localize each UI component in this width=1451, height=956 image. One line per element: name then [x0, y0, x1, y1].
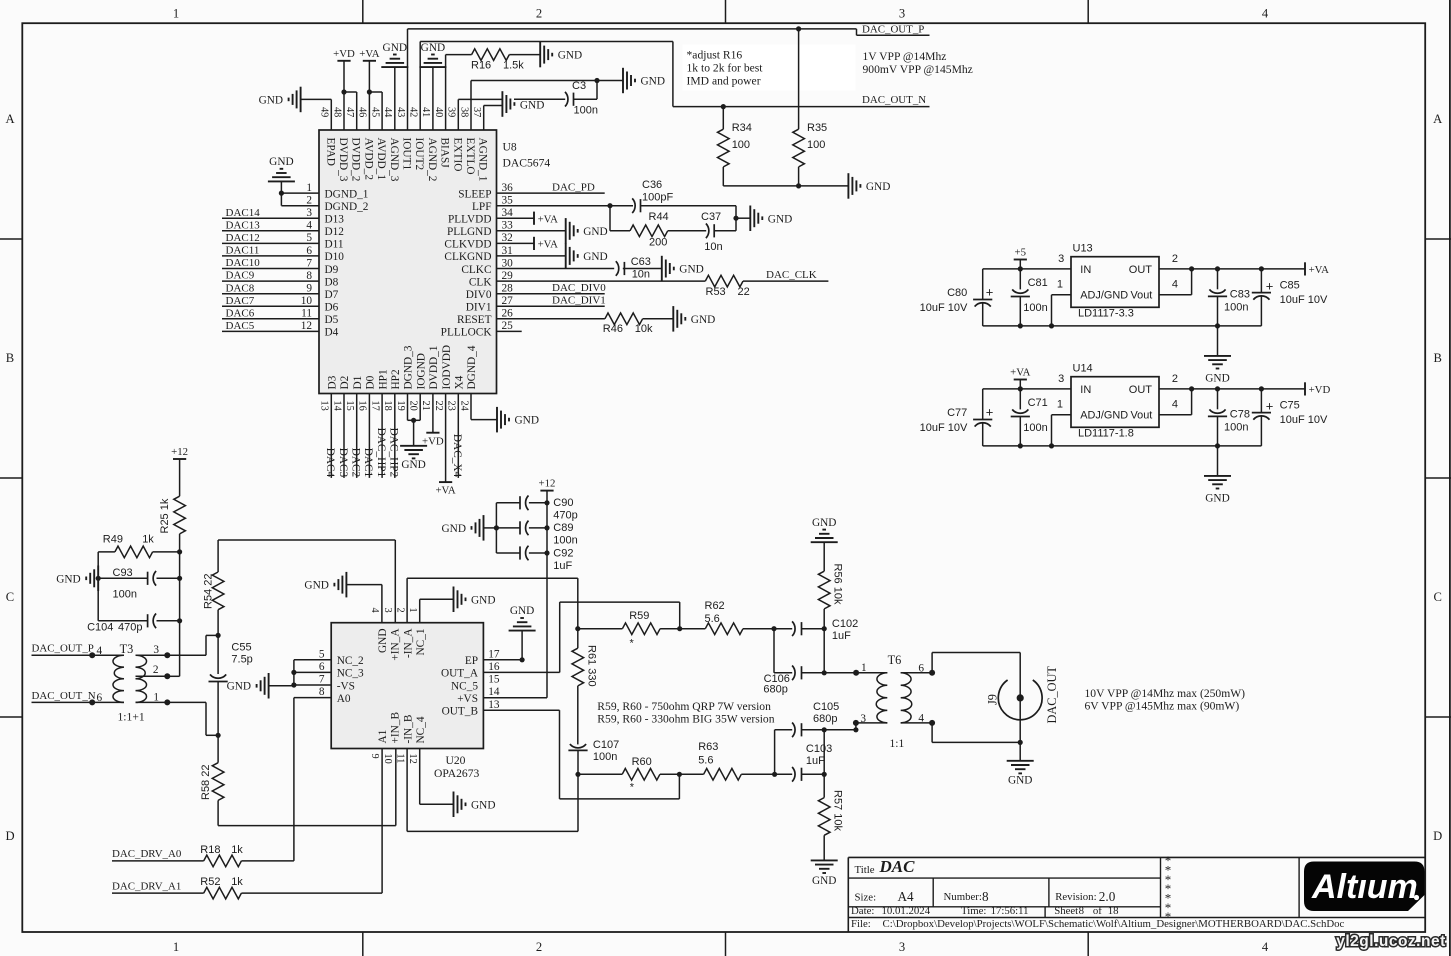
wire R46 to GND	[643, 318, 674, 320]
svg-text:of: of	[1093, 905, 1102, 917]
svg-text:100n: 100n	[113, 589, 137, 601]
junction c4 top	[1259, 266, 1264, 271]
wire DAC_PD from pin36	[497, 182, 605, 194]
svg-text:GND: GND	[421, 42, 445, 54]
svg-text:42: 42	[408, 107, 419, 117]
U20 top pin names and numbers	[369, 608, 427, 661]
capacitor C105 680p	[775, 701, 840, 774]
svg-text:R63: R63	[698, 741, 718, 753]
GND left of pin49	[259, 87, 301, 113]
svg-text:GND: GND	[520, 100, 544, 112]
capacitor C78 100n	[1208, 389, 1250, 446]
junction R34 top	[721, 104, 726, 109]
svg-text:4: 4	[306, 220, 312, 232]
svg-text:NC_5: NC_5	[451, 680, 478, 692]
svg-text:1k: 1k	[231, 844, 243, 856]
T6 pin6 terminal	[918, 662, 935, 675]
resistor R18 1k	[200, 844, 243, 867]
svg-text:+VA: +VA	[1309, 264, 1329, 276]
transformer T6	[856, 653, 932, 750]
svg-text:C93: C93	[113, 567, 133, 579]
ground rail U14	[983, 445, 1262, 447]
svg-text:R44: R44	[649, 211, 669, 223]
junction c3 top	[1215, 386, 1220, 391]
junction c3 top	[1215, 266, 1220, 271]
net label DAC11 wire U8 pin 6	[222, 245, 319, 257]
svg-text:16: 16	[488, 661, 500, 673]
svg-text:15: 15	[488, 674, 500, 686]
svg-text:C104: C104	[87, 622, 113, 634]
capacitor C90 470p	[496, 496, 577, 522]
svg-text:DAC4: DAC4	[324, 448, 336, 478]
junction GND tap	[733, 216, 738, 221]
wire +IN_B to R58	[218, 749, 396, 826]
svg-text:2: 2	[536, 7, 542, 21]
wire rail to GND U14	[1217, 446, 1219, 476]
svg-text:DAC_OUT: DAC_OUT	[1045, 666, 1059, 724]
svg-text:File:: File:	[851, 918, 871, 930]
svg-text:-VS: -VS	[337, 680, 355, 692]
junction C3 top	[594, 78, 599, 83]
title block	[848, 857, 1425, 932]
svg-text:GND: GND	[471, 594, 495, 606]
GND at U8 pin41	[419, 42, 446, 130]
GND right of pin24	[497, 407, 539, 433]
svg-text:12: 12	[407, 754, 418, 764]
svg-text:680p: 680p	[813, 713, 837, 725]
svg-text:+VD: +VD	[1309, 384, 1331, 396]
svg-text:C90: C90	[553, 497, 573, 509]
svg-text:34: 34	[502, 207, 514, 219]
svg-text:+IN_A: +IN_A	[390, 628, 402, 661]
GND at pin31	[566, 243, 608, 269]
svg-text:DAC_X4: DAC_X4	[451, 434, 463, 478]
wire T3 pin1 jog to R58	[167, 702, 218, 735]
svg-text:6: 6	[319, 661, 325, 673]
resistor R63 5.6	[698, 741, 774, 780]
svg-text:C36: C36	[642, 179, 662, 191]
wire U20 pin17 EP	[483, 659, 522, 661]
svg-text:-IN_B: -IN_B	[402, 715, 414, 744]
svg-text:DGND_1: DGND_1	[325, 188, 369, 200]
net label DAC6 wire U8 pin 11	[222, 307, 319, 319]
svg-text:470p: 470p	[118, 622, 142, 634]
svg-text:1uF: 1uF	[553, 560, 572, 572]
GND right of R16	[540, 42, 582, 67]
svg-text:3: 3	[899, 940, 905, 954]
junction left rail C89	[494, 525, 499, 530]
svg-text:C92: C92	[553, 547, 573, 559]
transformer T3	[92, 642, 146, 723]
GND left of U20 pin7	[227, 673, 269, 699]
svg-text:DAC3: DAC3	[337, 448, 349, 478]
capacitor C92 1uF	[496, 546, 573, 572]
svg-text:DAC14: DAC14	[226, 207, 261, 219]
svg-text:1uF: 1uF	[832, 630, 851, 642]
wire R54 top to U20 +IN_A	[218, 539, 395, 541]
svg-text:C: C	[6, 590, 14, 604]
junction J9 ground	[1018, 740, 1023, 745]
svg-text:*: *	[1165, 909, 1172, 924]
capacitor C81 100n	[1011, 269, 1048, 326]
svg-text:J9: J9	[986, 694, 1000, 705]
svg-text:C71: C71	[1028, 397, 1048, 409]
svg-text:13: 13	[319, 401, 330, 411]
svg-text:IOUT1: IOUT1	[401, 138, 413, 171]
GND right of R35	[848, 173, 890, 199]
svg-text:43: 43	[395, 107, 406, 117]
svg-text:DAC5674: DAC5674	[503, 157, 551, 170]
wire U13 pin4	[1159, 269, 1192, 295]
resistor R58 22	[200, 735, 224, 825]
svg-text:1: 1	[173, 7, 179, 21]
GND below J9	[1007, 761, 1034, 787]
svg-text:17:56:11: 17:56:11	[991, 905, 1029, 917]
svg-text:B: B	[1433, 351, 1441, 365]
svg-text:36: 36	[502, 182, 514, 194]
svg-text:10V VPP @14Mhz max (250mW): 10V VPP @14Mhz max (250mW)	[1085, 687, 1246, 700]
wire J9 center to ground	[1019, 698, 1021, 743]
+VA port at pin34	[497, 212, 559, 226]
connector J9 DAC_OUT	[986, 666, 1060, 724]
svg-text:C103: C103	[806, 743, 832, 755]
svg-text:A: A	[5, 112, 14, 126]
wire C63 to GND	[623, 268, 662, 270]
capacitor C3 100n	[565, 80, 598, 117]
svg-text:OUT: OUT	[1129, 384, 1153, 396]
svg-text:+: +	[986, 404, 994, 419]
svg-text:100pF: 100pF	[642, 192, 673, 204]
resistor R25 1k	[159, 496, 185, 552]
junction EP	[520, 657, 525, 662]
svg-text:R34: R34	[732, 122, 752, 134]
svg-text:100n: 100n	[1023, 302, 1047, 314]
wire DAC_DIV1 from pin27	[497, 295, 606, 307]
wire to GND	[736, 217, 750, 219]
wire pin33 to GND	[497, 230, 566, 232]
capacitor C106 680p	[763, 629, 824, 696]
svg-text:R46: R46	[603, 323, 623, 335]
net label DAC12 wire U8 pin 5	[222, 232, 319, 244]
capacitor C63 10n	[616, 256, 651, 281]
T3 pin1 terminal	[164, 699, 170, 705]
wire U14 output	[1159, 388, 1305, 390]
svg-text:+VD: +VD	[422, 435, 444, 447]
junction +VA	[367, 89, 372, 94]
wire U14 pin1	[1052, 415, 1072, 446]
wire R52 to U20 A1	[241, 749, 382, 894]
capacitor C107 100n	[568, 739, 619, 774]
regulator U14 LD1117-1.8	[1057, 363, 1178, 440]
svg-text:4: 4	[1172, 399, 1178, 411]
wire DAC_OUT_N from pin42	[420, 42, 929, 131]
svg-text:Date:: Date:	[851, 905, 874, 917]
svg-text:GND: GND	[515, 415, 539, 427]
svg-text:DAC8: DAC8	[226, 282, 255, 294]
wire C37 to corner	[714, 230, 736, 232]
svg-text:8: 8	[319, 686, 325, 698]
svg-text:GND: GND	[56, 573, 80, 585]
resistor R57 10k	[818, 774, 843, 860]
U8 right pin names and numbers	[441, 182, 513, 339]
svg-text:29: 29	[502, 270, 514, 282]
Altium logo	[1304, 862, 1425, 912]
svg-text:R60: R60	[632, 756, 652, 768]
T6 pin3 terminal	[853, 713, 867, 726]
svg-text:100n: 100n	[1224, 422, 1248, 434]
svg-text:DVDD_3: DVDD_3	[337, 138, 349, 182]
svg-text:DAC_OUT_N: DAC_OUT_N	[862, 94, 926, 106]
svg-text:6V VPP @145Mhz max (90mW): 6V VPP @145Mhz max (90mW)	[1085, 700, 1240, 713]
svg-text:GND: GND	[812, 875, 836, 887]
svg-text:C3: C3	[572, 80, 586, 92]
wire C105 to C103 right	[823, 730, 825, 775]
svg-text:47: 47	[344, 107, 355, 117]
junction pin4 out	[1189, 266, 1194, 271]
resistor R54 22	[203, 540, 224, 635]
junction R62 C106	[771, 626, 776, 631]
wire U20 pin8 A0	[294, 698, 331, 861]
revision asterisks	[1165, 853, 1172, 924]
junction C55 R58	[216, 733, 221, 738]
svg-text:DAC_HP1: DAC_HP1	[375, 428, 387, 478]
wire and net label DAC2 U8 pin 15	[350, 394, 362, 478]
svg-text:DIV1: DIV1	[466, 302, 492, 314]
svg-text:3: 3	[1058, 253, 1064, 265]
svg-text:C75: C75	[1280, 399, 1300, 411]
svg-text:C55: C55	[231, 642, 251, 654]
svg-text:OUT_A: OUT_A	[441, 668, 479, 680]
svg-text:T3: T3	[120, 642, 134, 656]
wire GND to caps	[484, 527, 497, 529]
svg-text:GND: GND	[679, 264, 703, 276]
svg-text:NC_1: NC_1	[415, 629, 427, 656]
U8 bottom pin names and numbers	[319, 345, 479, 411]
svg-text:D5: D5	[325, 314, 339, 326]
svg-text:NC_3: NC_3	[337, 668, 364, 680]
wire to T6 pin3	[824, 723, 856, 730]
svg-text:17: 17	[488, 648, 500, 660]
svg-text:10k: 10k	[635, 323, 653, 335]
svg-text:R16: R16	[471, 59, 491, 71]
T3 pin2 terminal	[164, 673, 170, 679]
svg-text:R56 10k: R56 10k	[832, 564, 844, 605]
svg-text:DAC_DIV0: DAC_DIV0	[552, 282, 606, 294]
svg-text:470p: 470p	[553, 510, 577, 522]
svg-text:R62: R62	[705, 600, 725, 612]
net label DAC10 wire U8 pin 7	[222, 257, 319, 269]
svg-text:LD1117-3.3: LD1117-3.3	[1078, 308, 1134, 320]
svg-text:D8: D8	[325, 276, 339, 288]
junction rail pin1	[1049, 323, 1054, 328]
svg-text:1:1: 1:1	[890, 737, 905, 750]
svg-text:10uF 10V: 10uF 10V	[1280, 294, 1328, 306]
GND left of C89	[442, 515, 484, 541]
svg-text:AGND_3: AGND_3	[388, 138, 400, 182]
svg-text:C80: C80	[947, 287, 967, 299]
svg-text:U8: U8	[503, 141, 517, 154]
svg-text:100n: 100n	[553, 535, 577, 547]
resistor R34 100	[718, 107, 752, 186]
svg-text:R59: R59	[629, 610, 649, 622]
wire C102 to C106 right	[823, 629, 825, 673]
svg-text:*adjust R16: *adjust R16	[687, 48, 743, 61]
svg-text:+5: +5	[1015, 247, 1027, 259]
wire LPF to R44	[610, 206, 630, 231]
U20 bottom pin names and numbers	[369, 712, 427, 764]
svg-text:EPAD: EPAD	[324, 138, 336, 166]
svg-text:D1: D1	[352, 376, 364, 390]
svg-text:C89: C89	[553, 522, 573, 534]
wire pin38 EXTLO	[471, 81, 623, 131]
svg-text:HP2: HP2	[390, 369, 402, 389]
svg-text:D12: D12	[325, 226, 345, 238]
svg-text:Time:: Time:	[961, 905, 986, 917]
svg-text:DAC_DRV_A1: DAC_DRV_A1	[112, 880, 181, 892]
GND at U8 pin44	[381, 42, 408, 130]
wire R16 to GND	[509, 54, 540, 56]
svg-text:*: *	[630, 638, 635, 650]
GND left of U20 pin4	[304, 572, 346, 598]
wire DAC_CLK	[743, 269, 828, 281]
wire U8 pin49 to GND	[301, 99, 332, 130]
svg-text:19: 19	[395, 401, 406, 411]
resistor R16 1.5k	[471, 49, 524, 72]
wire -IN_B feedback	[407, 749, 578, 832]
svg-text:680p: 680p	[763, 684, 787, 696]
svg-text:35: 35	[502, 195, 514, 207]
svg-text:+VA: +VA	[435, 485, 455, 497]
power port +VA	[1010, 367, 1030, 389]
wire R34 R35 to GND	[723, 185, 848, 187]
svg-text:R25 1k: R25 1k	[159, 498, 171, 533]
svg-text:1: 1	[306, 182, 312, 194]
svg-text:D4: D4	[325, 327, 339, 339]
svg-text:2: 2	[1172, 373, 1178, 385]
svg-text:12: 12	[301, 320, 313, 332]
svg-text:R54 22: R54 22	[203, 574, 215, 609]
svg-text:EP: EP	[465, 655, 478, 667]
wire U20 pin1 to GND	[420, 599, 454, 622]
svg-text:30: 30	[502, 257, 514, 269]
resistor R53 22	[705, 275, 749, 298]
junction R59 right	[677, 626, 682, 631]
svg-text:U13: U13	[1073, 243, 1093, 255]
wire pin35 LPF	[497, 205, 634, 207]
svg-text:BIASJ: BIASJ	[439, 138, 451, 169]
power port +VA	[1305, 262, 1329, 276]
capacitor C71 100n	[1011, 389, 1048, 446]
svg-text:11: 11	[301, 308, 312, 320]
svg-text:EXTIO: EXTIO	[451, 138, 463, 172]
svg-text:CLKC: CLKC	[461, 264, 491, 276]
svg-text:OUT: OUT	[1129, 264, 1153, 276]
junction C103 right	[822, 772, 827, 777]
svg-text:38: 38	[458, 107, 469, 117]
svg-text:DAC7: DAC7	[226, 295, 255, 307]
svg-text:4: 4	[1172, 279, 1178, 291]
svg-text:33: 33	[502, 220, 514, 232]
svg-text:AVDD_2: AVDD_2	[362, 138, 374, 181]
svg-text:22: 22	[433, 401, 444, 411]
svg-text:Revision:: Revision:	[1055, 891, 1096, 903]
T6 pin4 terminal	[918, 712, 935, 726]
capacitor C36 100pF	[632, 179, 673, 213]
svg-text:GND: GND	[377, 629, 389, 653]
resistor R61 330	[572, 629, 597, 745]
svg-text:D11: D11	[325, 239, 344, 251]
svg-text:10n: 10n	[704, 241, 722, 253]
svg-text:44: 44	[382, 107, 393, 117]
svg-text:10uF 10V: 10uF 10V	[920, 422, 968, 434]
junction C106 right	[822, 670, 827, 675]
svg-text:A: A	[1433, 112, 1442, 126]
capacitor C37 10n	[701, 211, 723, 253]
svg-text:DAC11: DAC11	[226, 245, 260, 257]
capacitor C55 7.5p	[209, 635, 253, 735]
svg-text:20: 20	[408, 401, 419, 411]
svg-text:31: 31	[502, 245, 513, 257]
net label DAC5 wire U8 pin 12	[222, 320, 319, 332]
svg-text:DVDD_2: DVDD_2	[350, 138, 362, 182]
svg-text:1: 1	[1057, 399, 1063, 411]
svg-text:D7: D7	[325, 289, 339, 301]
junction R35 top	[796, 26, 801, 31]
svg-text:9: 9	[306, 283, 312, 295]
svg-text:C77: C77	[947, 407, 967, 419]
GND above R56	[811, 517, 838, 571]
svg-text:2: 2	[306, 195, 312, 207]
GND below R57	[811, 860, 838, 887]
net label DAC_OUT_P	[862, 23, 924, 35]
svg-text:Size:: Size:	[855, 891, 877, 903]
svg-text:DAC5: DAC5	[226, 320, 255, 332]
svg-text:49: 49	[319, 107, 330, 117]
svg-text:5.6: 5.6	[698, 754, 713, 766]
wire DAC_OUT_P from pin43	[408, 29, 930, 130]
left rail R49 to C104	[97, 552, 99, 621]
wire +VD to pin47	[344, 92, 357, 130]
svg-text:GND: GND	[866, 181, 890, 193]
svg-text:+VD: +VD	[333, 48, 355, 60]
svg-text:R59, R60 - 330ohm BIG 35W vers: R59, R60 - 330ohm BIG 35W version	[597, 712, 774, 725]
junction pins1-2	[279, 191, 284, 196]
svg-text:18: 18	[382, 401, 393, 411]
svg-text:+IN_B: +IN_B	[390, 712, 402, 743]
svg-text:AGND_2: AGND_2	[426, 138, 438, 182]
svg-text:PLLVDD: PLLVDD	[448, 214, 492, 226]
svg-text:GND: GND	[401, 459, 425, 471]
svg-text:6: 6	[918, 662, 924, 674]
svg-text:3: 3	[1058, 373, 1064, 385]
wire R25 rail	[179, 552, 181, 676]
svg-text:39: 39	[446, 107, 457, 117]
wire pin29 CLK to R53	[497, 280, 706, 282]
T3 pin2 tap wire	[136, 664, 180, 677]
wire U14 pin4	[1159, 389, 1192, 415]
svg-text:DAC_OUT_P: DAC_OUT_P	[862, 23, 924, 35]
GND below U13	[1204, 356, 1231, 385]
svg-text:24: 24	[458, 401, 469, 411]
svg-text:100n: 100n	[1224, 302, 1248, 314]
svg-text:C85: C85	[1280, 279, 1300, 291]
svg-text:GND: GND	[1008, 775, 1032, 787]
wire U13 pin1	[1052, 295, 1072, 326]
capacitor C89 100n	[496, 521, 577, 547]
resistor R35 100	[793, 29, 827, 186]
wire DAC_OUT_P to T3 pin4	[32, 643, 103, 657]
note 10V VPP	[1085, 687, 1246, 713]
